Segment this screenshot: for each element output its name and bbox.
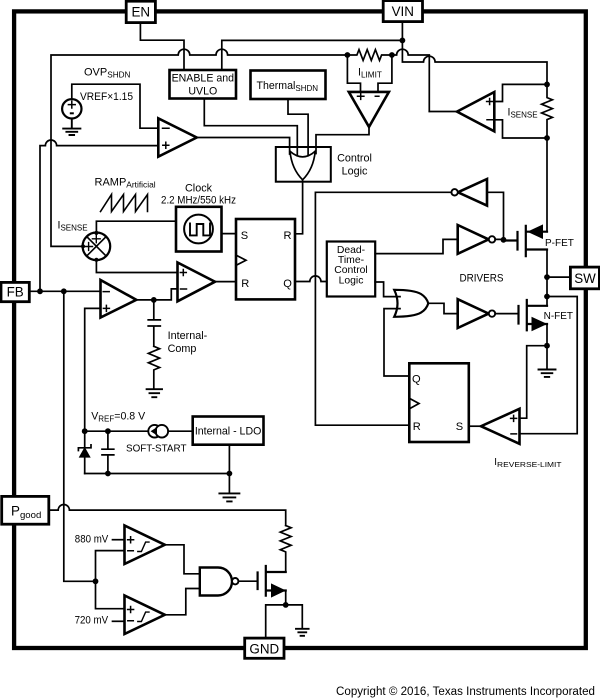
wire ISENSE amp plus to resistor top [494,84,547,101]
wire Pgood pin to pull-up resistor (hop over FB sense) [49,505,286,526]
block ENABLE and UVLO [170,70,237,99]
wire P driver output to P-FET gate [495,239,503,240]
pin box VIN [383,1,422,22]
svg-text:R: R [413,421,421,433]
wire P-FET drain to SW node [546,250,548,297]
waveform RAMP sawtooth [101,195,148,212]
resistor R ILIMIT [347,50,391,61]
resistor Pgood pull-up [280,526,291,573]
junction dot SS cap top [105,428,111,434]
wire ILIMIT comparator - tap [378,55,392,92]
comparator ILIMIT (points down) [349,92,389,127]
svg-text:Clock: Clock [185,183,213,195]
svg-text:Q: Q [412,374,421,386]
wire 880mV label stub [113,539,125,541]
svg-text:S: S [456,421,463,433]
svg-text:Internal-: Internal- [168,330,208,342]
wire soft-start bottom rail [85,473,230,475]
gate NAND Pgood [200,568,232,596]
wire N driver output to N-FET gate [495,313,518,315]
wire FB sense down to Pgood comparators (passes under Pgood hop) [64,291,96,581]
clock oscillator circle symbol [184,215,213,244]
wire latch U1 Q to dead-time box (hop) [295,276,327,282]
pin box EN [126,1,155,22]
junction dot compensation node [151,297,157,303]
wire LDO to ground rail [228,445,230,493]
wire dead-time upper output to P driver input [375,239,458,253]
wire ENABLE/UVLO output to control gate [204,99,297,155]
inverter driver N (U4) [458,299,489,328]
svg-text:N-FET: N-FET [544,311,573,322]
block Control Logic box [276,147,331,182]
svg-text:EN: EN [131,5,150,20]
wire clock output to latch U1 S input [222,233,237,235]
junction dot rail left [345,52,351,58]
junction dot Pgood FET source [283,602,289,608]
junction dot N-FET drain node [544,294,550,300]
wire 720mV label stub [113,620,125,622]
block Internal-LDO [193,417,264,445]
wire FET source to GND pin [266,605,286,638]
amplifier ISENSE [457,92,494,131]
svg-text:Logic: Logic [342,166,368,178]
wire Pgood FET source node [285,591,287,605]
wire 880mV output to NAND input [165,545,200,574]
wire FB line to error amp minus [29,290,100,292]
wire NAND output to Pgood FET gate [238,580,257,582]
wire P-FET gate node up to feedback inverter input [487,192,504,240]
svg-text:R: R [241,278,249,290]
wire ISENSE amp output to rail [429,111,457,113]
svg-text:DRIVERS: DRIVERS [460,273,504,285]
resistor internal comp [148,346,159,388]
wire top rail ISENSE-to-multiplier net [51,49,429,246]
latch U2 clock marker [409,398,419,409]
wire branch to 720mV comparator plus [96,581,125,608]
comparator IREVERSE-LIMIT (points left) [481,409,520,444]
svg-text:R: R [284,230,292,242]
block Dead-Time-Control Logic [327,242,375,297]
comparator OVP (VREFx1.15) [158,118,196,156]
gate OR (N driver path) [394,290,428,317]
wire N-FET source to ground [546,324,548,369]
wire multiplier to clock box [96,221,176,232]
wire soft-start rail [85,430,193,432]
wire error amp plus from VREF node [85,308,101,431]
wire control gate output to latch U1 R(top) [295,180,303,234]
junction dot multiplier left [81,244,85,248]
wire FB to OVP comparator plus (hop over rail-down) [40,140,158,291]
current source soft-start [148,425,161,438]
pin box SW [570,267,599,289]
block Thermal SHDN [251,71,326,100]
junction dot Pgood comparator branch [93,578,99,584]
resistor R ISENSE [542,84,553,138]
svg-text:880 mV: 880 mV [75,533,109,545]
svg-text:2.2 MHz/550 kHz: 2.2 MHz/550 kHz [161,195,236,207]
svg-text:GND: GND [249,641,279,656]
ground internal comp [147,389,162,397]
wire IREVERSE output to latch U2 S [469,425,481,427]
latch U1 clock marker [236,255,246,265]
wire VIN down and to ISENSE resistor [402,22,547,85]
voltage source VREF x1.15 [62,99,81,118]
ground under VREF source [63,119,80,136]
pin box Pgood [2,496,49,524]
wire branch to 880mV comparator minus [96,551,125,582]
svg-text:SW: SW [574,271,596,286]
wire multiplier to PWM comparator plus [96,260,177,272]
zener diode soft-start [84,431,86,473]
wire PWM comparator output to latch U1 R input [215,281,236,283]
comparator 880mV [125,526,165,565]
comparator 720mV [125,596,165,635]
wire feedback inverter output to latch U2 R [315,192,451,425]
wire FET source to ground symbol [286,605,303,628]
capacitor soft-start [102,431,114,473]
ground near GND pin [296,629,309,636]
svg-text:Copyright © 2016, Texas Instru: Copyright © 2016, Texas Instruments Inco… [336,686,595,698]
wire OR gate output to N driver input [428,303,458,313]
junction dot ISENSE resistor bottom [544,135,550,141]
inverter driver P (U3) [458,225,489,254]
svg-text:P-FET: P-FET [545,238,574,249]
wire SW node to SW pin [547,276,570,278]
junction dot multiplier top [94,231,98,235]
ground N-FET source [539,370,556,377]
svg-text:UVLO: UVLO [188,86,217,98]
junction dot N-FET source node [544,343,550,349]
latch U2 box [409,363,469,442]
ground LDO [219,493,239,501]
junction dot SW pin node [544,274,550,280]
wire EN to ENABLE/UVLO [140,23,184,70]
wire N-FET source node to IREVERSE plus [520,346,548,419]
junction dot SS rail left [82,428,88,434]
svg-text:S: S [241,230,248,242]
junction dot multiplier bottom [94,258,98,262]
svg-text:FB: FB [7,285,24,300]
capacitor internal comp [148,300,160,346]
wire dead-time lower output to OR gate upper input [375,282,400,297]
wire SW node to IREVERSE minus [520,297,578,434]
wire latch U2 Q to OR gate lower input [384,309,409,376]
junction dot rail right [389,52,395,58]
svg-text:Logic: Logic [339,275,364,286]
wire VIN to ENABLE/UVLO [222,40,403,69]
pin box GND [245,638,284,658]
junction dot SS cap bottom [105,471,111,477]
pin box FB [1,282,29,301]
transistor Pgood FET [258,566,286,596]
transistor P-FET [504,226,548,256]
svg-text:VIN: VIN [392,4,414,19]
junction dot VIN node [400,38,406,44]
wire VREF source top to OVP comparator minus [72,84,159,128]
wire ILIMIT comparator + tap [347,55,360,92]
junction dot FB-OVP branch [37,288,43,294]
latch U1 box [236,219,295,299]
svg-text:720 mV: 720 mV [75,615,109,627]
svg-text:SOFT-START: SOFT-START [126,443,187,454]
error amplifier (FB) [101,280,137,318]
wire ISENSE amp minus to resistor bottom [494,120,547,138]
wire N-FET drain node down [546,297,548,306]
transistor N-FET [519,300,548,330]
svg-text:VREF×1.15: VREF×1.15 [80,91,133,103]
wire OVP comparator output to control gate [197,138,290,155]
wire 720mV output to NAND input [165,589,200,615]
junction dot ISENSE resistor top [544,82,550,88]
comparator PWM [178,263,216,302]
block clock oscillator box [176,207,222,252]
svg-text:Control: Control [337,153,372,165]
inverter feedback (points left) [458,179,487,206]
junction dot P-FET gate node [501,237,507,243]
wire error amp output to PWM comparator minus [136,289,177,300]
multiplier ISENSE (circle with X) [83,233,111,261]
wire VIN rail down to P-FET source [546,138,548,232]
junction dot LDO ground [227,471,233,477]
svg-text:ENABLE and: ENABLE and [172,73,235,85]
junction dot FB-down branch [61,288,67,294]
gate OR in control logic (points down) [290,151,315,180]
svg-text:Q: Q [283,278,292,290]
svg-text:Internal - LDO: Internal - LDO [195,426,262,438]
wire Thermal output to control gate [288,99,308,155]
wire ILIMIT output to control gate [316,127,369,154]
svg-text:Comp: Comp [168,343,197,355]
